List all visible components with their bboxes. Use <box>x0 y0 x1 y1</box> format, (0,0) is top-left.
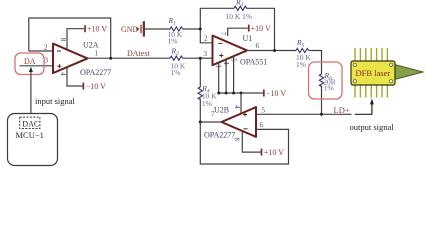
svg-text:5: 5 <box>262 106 266 114</box>
svg-text:DAC: DAC <box>22 119 39 128</box>
wire U2B pin4 supply drop <box>240 93 242 113</box>
wire U2B output to junction <box>200 121 221 123</box>
svg-text:6: 6 <box>260 121 264 129</box>
wire R5 to R6 corner <box>309 51 322 75</box>
svg-text:3: 3 <box>45 57 49 65</box>
svg-text:R5: R5 <box>296 38 305 49</box>
svg-text:7: 7 <box>219 32 227 36</box>
junction at U2A output feedback <box>109 57 112 60</box>
svg-text:+10 V: +10 V <box>251 24 271 33</box>
wire U1 pin2 jog <box>200 8 212 43</box>
wire U1 pin3 node down to R4 <box>200 57 212 59</box>
svg-text:−10 V: −10 V <box>266 89 286 98</box>
svg-text:OPA2277: OPA2277 <box>80 68 111 77</box>
junction bus pin5 <box>232 92 235 95</box>
junction feedback / output <box>273 49 276 52</box>
junction R6 / LD+ <box>320 113 323 116</box>
highlight box R6 <box>309 62 343 99</box>
svg-text:6: 6 <box>256 42 260 50</box>
junction DAtest / R4 <box>199 57 202 60</box>
svg-text:input signal: input signal <box>35 96 76 106</box>
op-amp U1 <box>213 36 248 66</box>
resistor R4 <box>198 84 217 108</box>
junction R4 / U2B output / loop <box>199 121 202 124</box>
svg-text:OPA2277: OPA2277 <box>204 131 235 140</box>
svg-text:10 K 1%: 10 K 1% <box>226 12 253 21</box>
svg-text:4: 4 <box>222 61 230 65</box>
svg-text:4: 4 <box>59 72 67 76</box>
wire output signal arrow <box>355 103 372 114</box>
wire U2A pin3 stub from DA <box>20 65 54 67</box>
power +10V U2B <box>242 131 284 157</box>
laser DFB package <box>351 48 423 98</box>
svg-text:+10 V: +10 V <box>264 148 284 157</box>
svg-text:−10 V: −10 V <box>86 82 106 91</box>
svg-text:U2A: U2A <box>83 41 99 50</box>
wire U1 output to R5 <box>247 50 275 52</box>
svg-text:R1: R1 <box>168 16 177 27</box>
pins top <box>355 48 387 62</box>
wire U2A feedback loop <box>29 18 111 58</box>
junction GND line / feedback <box>199 28 202 31</box>
resistor R3 <box>226 0 253 21</box>
wire U2B feedback loop bottom <box>200 122 288 164</box>
highlight box DA <box>15 53 44 75</box>
svg-text:MCU−1: MCU−1 <box>16 130 44 140</box>
power -10V U2A <box>67 67 106 91</box>
svg-text:GND: GND <box>121 25 139 34</box>
fiber output triangle <box>395 65 424 80</box>
resistor R5 <box>296 38 311 69</box>
svg-text:U1: U1 <box>243 34 253 43</box>
wire input arrow to DA <box>30 70 32 114</box>
resistor R1 <box>168 16 183 45</box>
svg-text:2: 2 <box>44 44 48 52</box>
svg-text:4: 4 <box>233 105 241 109</box>
svg-text:LD+: LD+ <box>334 105 350 115</box>
wire U2A output / DAtest net <box>88 57 171 59</box>
junction bus U2B supply <box>240 92 243 95</box>
wire GND net to U1 pin2 <box>145 28 170 30</box>
ground GND <box>121 21 145 36</box>
mounting holes <box>353 63 393 83</box>
power -10V U1 bus <box>219 89 287 98</box>
svg-text:DFB laser: DFB laser <box>356 68 391 78</box>
svg-text:1: 1 <box>95 50 99 58</box>
package body <box>351 61 395 85</box>
svg-text:8: 8 <box>59 38 67 42</box>
resistor R2 <box>170 47 186 78</box>
wire U1 bottom pins to V- bus <box>218 63 220 93</box>
svg-text:output signal: output signal <box>350 122 395 132</box>
wire U1 feedback loop <box>200 7 234 9</box>
svg-text:R2: R2 <box>171 47 180 58</box>
svg-text:3: 3 <box>204 50 208 58</box>
svg-text:1%: 1% <box>324 83 334 92</box>
svg-text:U2B: U2B <box>214 105 229 114</box>
op-amp U2A <box>53 44 88 74</box>
resistor R6 <box>319 71 335 93</box>
svg-text:DAtest: DAtest <box>127 49 150 58</box>
svg-text:2: 2 <box>204 35 208 43</box>
junction bus pin4 <box>225 92 228 95</box>
svg-text:1%: 1% <box>168 37 178 46</box>
block DAC <box>20 117 40 128</box>
junction bus pin1 <box>217 92 220 95</box>
block MCU-1 <box>8 114 58 166</box>
svg-text:1%: 1% <box>202 99 212 108</box>
svg-text:5: 5 <box>230 58 238 62</box>
power +10V U2A <box>67 25 107 50</box>
svg-text:DA: DA <box>24 57 36 66</box>
svg-text:+10 V: +10 V <box>87 25 107 34</box>
wire U2B pin5 / LD+ net <box>256 113 352 115</box>
svg-text:1: 1 <box>215 65 223 69</box>
pins bottom <box>355 85 387 98</box>
wire U2A pin2 stub <box>29 50 53 52</box>
svg-text:1%: 1% <box>296 60 306 69</box>
svg-text:OPA551: OPA551 <box>240 58 267 67</box>
power +10V U1 <box>228 24 271 36</box>
op-amp U2B (points left) <box>222 107 257 137</box>
svg-text:1%: 1% <box>171 68 181 77</box>
